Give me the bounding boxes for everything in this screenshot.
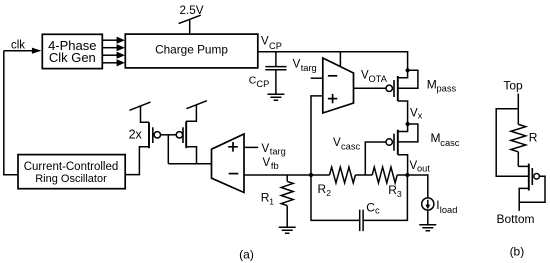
wire OTA supply tap (339, 52, 341, 67)
svg-text:casc: casc (341, 142, 360, 152)
resistor R2 (318, 167, 356, 198)
svg-text:targ: targ (301, 63, 317, 73)
svg-text:Top: Top (503, 78, 523, 92)
svg-text:R: R (388, 183, 397, 197)
node Vx label (410, 107, 423, 120)
svg-text:C: C (366, 200, 375, 214)
svg-text:CP: CP (269, 41, 282, 51)
svg-text:load: load (440, 205, 458, 215)
node junction dot Mpass source (406, 68, 410, 72)
wire R2 to R3 (355, 174, 372, 176)
ground for Iload (419, 225, 436, 231)
svg-text:clk: clk (11, 39, 25, 51)
svg-text:Clk Gen: Clk Gen (49, 50, 96, 65)
svg-text:pass: pass (437, 84, 457, 94)
ground for R1 (279, 227, 296, 233)
wire bulk rail (b) (496, 109, 529, 176)
node VOTA label (361, 70, 388, 85)
svg-text:(a): (a) (239, 247, 254, 261)
wire amp output (168, 163, 211, 165)
node Bottom label (496, 212, 534, 226)
capacitor Cc (311, 175, 407, 231)
block Current-Controlled Ring Oscillator (18, 155, 125, 189)
wire gate to amp output (167, 135, 169, 164)
label (a) (239, 247, 254, 261)
svg-text:Charge Pump: Charge Pump (155, 43, 228, 57)
wire mirror gates (161, 134, 177, 136)
node junction dot Vfb (309, 173, 313, 177)
svg-text:V: V (293, 59, 301, 71)
wire EA plus stub (244, 146, 258, 148)
svg-text:OTA: OTA (369, 74, 388, 84)
svg-text:R: R (529, 130, 538, 144)
wire VCP rail (258, 52, 408, 71)
node Vcasc label (333, 137, 360, 152)
svg-text:CP: CP (256, 79, 269, 89)
current source Iload (407, 175, 457, 225)
wire clk input (4, 50, 33, 52)
svg-text:Ring Oscillator: Ring Oscillator (35, 173, 107, 185)
resistor R3 (372, 167, 402, 199)
svg-text:V: V (261, 36, 269, 48)
node junction dot Vout (405, 173, 409, 177)
svg-text:fb: fb (271, 161, 279, 171)
svg-text:1: 1 (269, 197, 274, 207)
transistor mirror left 2x (125, 106, 160, 174)
svg-text:M: M (431, 131, 441, 145)
svg-text:Bottom: Bottom (496, 212, 534, 226)
wire feedback loop left (4, 51, 18, 175)
wire clock phase 1 (102, 37, 125, 44)
svg-text:2: 2 (326, 188, 331, 198)
block 4-Phase Clk Gen (42, 34, 102, 68)
svg-text:x: x (418, 111, 423, 121)
net VCP label (261, 36, 282, 52)
node Vtarg label (EA input) (262, 143, 286, 157)
supply 2.5V (179, 4, 204, 34)
resistor R1 (261, 175, 294, 227)
resistor R (b) (511, 124, 538, 166)
node junction dot Vx (406, 122, 410, 126)
label (b) (510, 244, 525, 258)
svg-text:2x: 2x (129, 127, 143, 141)
svg-text:casc: casc (440, 138, 459, 148)
capacitor CCP (249, 52, 287, 94)
svg-text:out: out (417, 164, 430, 174)
node clk label (11, 39, 25, 51)
wire R3 to Vout (397, 174, 407, 176)
ground for CCP (267, 94, 284, 100)
arrow clk into 4-phase box (32, 48, 42, 54)
wire clock phase 2 (102, 44, 125, 51)
svg-text:V: V (263, 157, 271, 169)
op-amp OTA U1 (323, 58, 354, 113)
wire OTA output to Mpass gate (354, 87, 386, 89)
supply slash left mirror (130, 102, 151, 110)
wire Vfb row (244, 174, 330, 176)
svg-text:Current-Controlled: Current-Controlled (24, 161, 119, 173)
svg-text:c: c (375, 206, 380, 216)
wire clock phase 3 (102, 52, 125, 59)
transistor (b) diode-connected (518, 164, 545, 211)
svg-text:3: 3 (397, 189, 402, 199)
transistor Mpass (386, 70, 456, 124)
node Top label (503, 78, 523, 92)
wire OTA plus input from Vfb node (311, 96, 323, 175)
wire clock phase 4 (102, 59, 125, 66)
node Vfb label (263, 157, 279, 171)
svg-text:V: V (333, 137, 341, 149)
svg-text:V: V (262, 143, 270, 155)
wire Vcasc to Mcasc gate (365, 142, 386, 175)
svg-text:R: R (318, 182, 327, 196)
wire Top stub and R lead (517, 94, 519, 125)
svg-text:(b): (b) (510, 244, 525, 258)
block Charge Pump (125, 34, 257, 68)
node Vtarg label (OTA input) (293, 59, 317, 73)
node Vout label (410, 160, 431, 174)
svg-text:M: M (427, 78, 437, 92)
wire Vtarg stub to OTA (311, 77, 323, 79)
transistor mirror right (176, 105, 196, 164)
svg-text:targ: targ (270, 147, 286, 157)
transistor Mcasc (386, 124, 460, 175)
supply slash right mirror (186, 101, 207, 109)
op-amp EA (error amp) (212, 134, 245, 193)
